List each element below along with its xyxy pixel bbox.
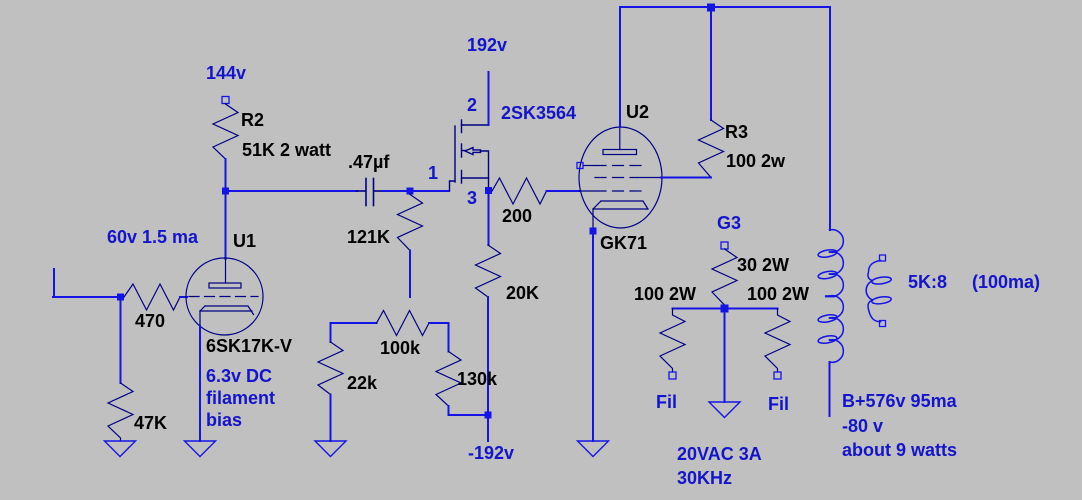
svg-text:20K: 20K <box>506 283 539 303</box>
svg-text:22k: 22k <box>347 373 378 393</box>
svg-text:U1: U1 <box>233 231 256 251</box>
wire fil row <box>673 308 778 310</box>
svg-text:192v: 192v <box>467 35 507 55</box>
svg-text:200: 200 <box>502 206 532 226</box>
resistor 20K <box>476 245 501 297</box>
ground under 22k <box>315 441 346 457</box>
resistor 30 2W <box>712 249 737 305</box>
node input junction <box>117 294 124 301</box>
svg-text:144v: 144v <box>206 63 246 83</box>
wire 100k left <box>331 322 377 324</box>
wire drain to 192v <box>488 72 490 125</box>
svg-text:100 2W: 100 2W <box>747 284 809 304</box>
wire 22k to ground <box>330 395 332 442</box>
transformer primary winding <box>818 230 844 363</box>
svg-text:B+576v 95ma: B+576v 95ma <box>842 391 958 411</box>
pin U2 g1 open square <box>577 163 583 169</box>
wire junction down to U1 plate <box>225 191 227 259</box>
svg-text:U2: U2 <box>626 102 649 122</box>
svg-text:Fil: Fil <box>768 394 789 414</box>
svg-text:2SK3564: 2SK3564 <box>501 103 576 123</box>
wire rail right down <box>829 7 831 230</box>
node fil junction <box>721 305 729 313</box>
svg-text:2: 2 <box>467 95 477 115</box>
transistor Q1 2SK3564 <box>450 120 489 191</box>
node cap/121K junction <box>407 188 414 195</box>
svg-text:130k: 130k <box>457 369 498 389</box>
resistor 121K <box>398 195 423 251</box>
resistor 100 2W right <box>765 309 790 373</box>
wire 200 to U2 grid <box>547 190 581 192</box>
resistor 130k <box>436 352 461 407</box>
svg-text:3: 3 <box>467 188 477 208</box>
wire primary bottom <box>829 362 831 416</box>
node R2/cap junction <box>222 188 229 195</box>
svg-text:6.3v DC: 6.3v DC <box>206 366 272 386</box>
tube U1 <box>186 258 263 335</box>
svg-text:100k: 100k <box>380 338 421 358</box>
svg-text:filament: filament <box>206 388 275 408</box>
svg-text:about 9 watts: about 9 watts <box>842 440 957 460</box>
wire junction to 47K <box>120 297 122 383</box>
resistor R3 <box>699 120 724 178</box>
svg-text:GK71: GK71 <box>600 233 647 253</box>
node source junction <box>485 187 492 194</box>
svg-text:R3: R3 <box>725 122 748 142</box>
terminal G3 <box>721 242 728 249</box>
svg-text:60v 1.5 ma: 60v 1.5 ma <box>107 227 199 247</box>
terminal Fil right <box>774 372 781 379</box>
svg-text:47K: 47K <box>134 413 167 433</box>
resistor 100k <box>377 311 430 336</box>
svg-text:G3: G3 <box>717 213 741 233</box>
capacitor .47uf <box>357 179 382 206</box>
node -192v junction <box>485 412 492 419</box>
svg-text:5K:8 (100ma): 5K:8 (100ma) <box>908 272 1040 292</box>
node U2 cathode junction <box>590 228 597 235</box>
wire fil junction to ground <box>724 312 726 402</box>
wire 130k to junction <box>449 406 486 415</box>
terminal secondary top <box>880 255 886 261</box>
svg-text:100 2W: 100 2W <box>634 284 696 304</box>
wire input horizontal <box>53 296 118 298</box>
svg-text:R2: R2 <box>241 110 264 130</box>
wire rail to R3 <box>710 7 712 120</box>
svg-text:6SK17K-V: 6SK17K-V <box>206 336 292 356</box>
wire U2 cathode to ground <box>592 231 594 441</box>
wire R3 to U2 g2 <box>661 177 711 179</box>
wire 470 to U1 grid <box>180 296 187 298</box>
transformer secondary winding <box>866 261 892 322</box>
wire top rail <box>620 6 830 8</box>
ground under 47K <box>105 441 136 457</box>
svg-text:.47µf: .47µf <box>348 152 390 172</box>
svg-text:1: 1 <box>428 163 438 183</box>
terminal secondary bottom <box>880 321 886 327</box>
wire source to 20K <box>488 194 490 245</box>
svg-text:-80 v: -80 v <box>842 416 883 436</box>
svg-text:-192v: -192v <box>468 443 514 463</box>
wire capacitor to gate <box>382 190 449 192</box>
svg-text:20VAC 3A: 20VAC 3A <box>677 444 762 464</box>
svg-text:100 2w: 100 2w <box>726 151 786 171</box>
resistor 47K <box>108 383 133 441</box>
resistor 22k <box>318 342 343 395</box>
resistor 100 2W left <box>660 309 685 373</box>
svg-text:bias: bias <box>206 410 242 430</box>
resistor 470 <box>124 284 180 310</box>
wire U2 plate up <box>619 7 621 127</box>
svg-text:30 2W: 30 2W <box>737 255 789 275</box>
node top rail junction <box>707 4 715 12</box>
wire 22k down <box>330 323 332 342</box>
svg-text:30KHz: 30KHz <box>677 468 732 488</box>
wire junction to capacitor <box>226 190 358 192</box>
resistor 200 <box>492 178 547 204</box>
svg-text:470: 470 <box>135 311 165 331</box>
wire input vertical <box>53 269 55 297</box>
wire 121K dangling lead <box>409 251 411 298</box>
ground fil center <box>709 402 740 418</box>
svg-text:121K: 121K <box>347 227 390 247</box>
tube U2 <box>579 127 662 228</box>
svg-text:51K 2 watt: 51K 2 watt <box>242 140 331 160</box>
ground under U1 <box>185 441 216 457</box>
resistor R2 <box>213 104 238 160</box>
terminal 144v <box>222 97 229 104</box>
wire U1 cathode to ground <box>199 326 201 441</box>
ground under U2 <box>578 441 609 457</box>
terminal Fil left <box>669 372 676 379</box>
wire R2 to junction <box>225 159 227 191</box>
wire 20K to -192v <box>487 297 489 441</box>
svg-text:Fil: Fil <box>656 392 677 412</box>
wire 100k right to 130k <box>429 323 449 352</box>
